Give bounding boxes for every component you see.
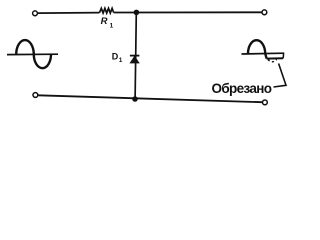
- input sine wave: [7, 40, 58, 68]
- wire: [135, 12, 136, 99]
- svg-text:D: D: [112, 51, 119, 61]
- diode D1: [130, 56, 140, 63]
- wire: [38, 12, 100, 15]
- wire: [38, 95, 262, 102]
- svg-text:Обрезано: Обрезано: [212, 81, 272, 96]
- input terminal top: [33, 11, 38, 16]
- output terminal bottom: [263, 100, 268, 105]
- output terminal top: [262, 10, 267, 15]
- svg-text:1: 1: [119, 57, 123, 64]
- junction bottom: [132, 96, 138, 102]
- svg-text:1: 1: [110, 22, 114, 29]
- svg-text:R: R: [101, 16, 108, 27]
- input terminal bottom: [33, 93, 38, 98]
- pointer line: [274, 64, 287, 88]
- resistor R1: [100, 8, 114, 13]
- wire: [114, 11, 262, 13]
- output waveform clipped: [242, 40, 285, 62]
- junction top: [134, 10, 140, 16]
